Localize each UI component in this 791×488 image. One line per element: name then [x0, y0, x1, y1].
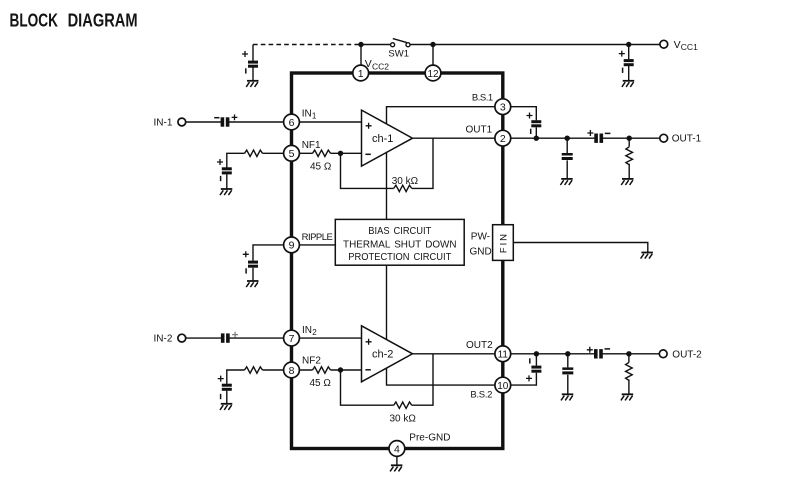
minus mark VCC1 cap — [622, 68, 624, 73]
resistor 45 ohm ch-1 — [313, 150, 331, 156]
node junction dot at pin12 feed — [430, 42, 435, 47]
wire B.S.2 from ch-2 bottom edge to pin 10 — [387, 368, 495, 385]
wire pin 4 to ground — [396, 456, 398, 465]
minus mark ch-1 input — [365, 153, 370, 155]
capacitor ripple plates — [248, 261, 258, 268]
svg-text:6: 6 — [289, 117, 295, 129]
capacitor VCC1 rail wire — [628, 45, 630, 81]
capacitor series OUT1 electrolytic — [594, 133, 603, 143]
wire bias stub ch-1 to bias box — [386, 152, 388, 220]
svg-text:IN: IN — [302, 325, 312, 336]
plus mark bootstrap cap 1 — [527, 113, 533, 119]
terminal OUT-2 — [659, 350, 667, 358]
pin 9 RIPPLE — [284, 237, 300, 253]
svg-text:2: 2 — [500, 133, 506, 145]
capacitor C-in1 (series electrolytic) — [221, 117, 230, 127]
wire feedback loop ch-1 — [341, 138, 434, 188]
minus mark series cap1 — [605, 132, 611, 134]
capacitor bootstrap B.S.1 wire — [511, 107, 537, 139]
node junction dot shunt cap2 — [565, 351, 570, 356]
svg-text:ch-1: ch-1 — [372, 133, 393, 145]
wire pin 6 to op-amp ch-1 + input — [299, 121, 361, 123]
plus mark C-in1 — [232, 115, 238, 121]
pin 5 NF1 — [284, 145, 300, 161]
pin 2 OUT1 — [495, 130, 511, 146]
node junction dot bootstrap1 on OUT1 — [534, 136, 539, 141]
capacitor shunt OUT2 plates — [562, 367, 573, 374]
resistor load OUT1 zigzag — [626, 147, 633, 165]
minus mark bootstrap cap 2 — [529, 358, 531, 363]
svg-text:9: 9 — [289, 240, 295, 252]
pin 12 — [425, 65, 441, 81]
svg-text:BIAS CIRCUIT: BIAS CIRCUIT — [368, 226, 431, 237]
svg-text:THERMAL SHUT DOWN: THERMAL SHUT DOWN — [343, 239, 457, 250]
op-amp ch-2 triangle — [362, 326, 413, 382]
svg-text:IN-1: IN-1 — [154, 118, 173, 129]
ground ripple cap — [246, 281, 258, 287]
minus mark series cap2 — [605, 348, 611, 350]
minus mark ch-2 input — [365, 369, 370, 371]
ground NF2 cap — [220, 404, 232, 410]
svg-text:30 kΩ: 30 kΩ — [390, 414, 417, 425]
plus mark bootstrap cap 2 — [526, 375, 532, 381]
svg-text:45 Ω: 45 Ω — [310, 378, 332, 389]
wire ch-2 output to pin 11 — [413, 353, 495, 355]
svg-text:SW1: SW1 — [388, 49, 409, 60]
capacitor shunt OUT2 wire — [567, 354, 569, 395]
ground VCC1 cap — [622, 81, 634, 87]
pin 11 OUT2 — [495, 346, 511, 362]
wire pin 7 to op-amp ch-2 + input — [299, 337, 361, 339]
svg-text:NF1: NF1 — [302, 140, 321, 151]
svg-text:IN: IN — [302, 108, 312, 119]
capacitor VCC2 rail (left dashed branch) wire — [252, 45, 254, 81]
wire pin 5 to op-amp ch-1 - input — [299, 152, 361, 154]
svg-text:IN-2: IN-2 — [154, 334, 173, 345]
capacitor VCC1 rail plates — [624, 59, 634, 66]
ground shunt cap1 — [560, 179, 572, 185]
capacitor bootstrap B.S.1 plates — [531, 120, 541, 127]
svg-text:ch-2: ch-2 — [372, 349, 393, 361]
resistor 30 kohm ch-1 — [394, 185, 412, 191]
svg-text:5: 5 — [289, 148, 295, 160]
svg-text:Pre-GND: Pre-GND — [409, 432, 450, 443]
svg-text:RIPPLE: RIPPLE — [302, 232, 333, 243]
ground FIN — [641, 253, 653, 259]
pin 10 B.S.2 — [495, 377, 511, 393]
node junction dot load resistor1 — [627, 136, 632, 141]
svg-text:12: 12 — [427, 69, 439, 80]
capacitor NF2 plates — [222, 384, 232, 391]
svg-text:1: 1 — [312, 112, 317, 121]
node junction dot shunt cap1 — [565, 136, 570, 141]
bias circuit box — [335, 219, 464, 265]
plus mark NF1 cap — [217, 159, 223, 165]
minus mark C-in1 — [214, 117, 219, 119]
svg-text:45 Ω: 45 Ω — [310, 161, 332, 172]
svg-text:10: 10 — [497, 381, 509, 392]
minus mark ripple cap — [245, 268, 247, 273]
svg-text:BLOCK: BLOCK — [10, 11, 58, 31]
plus mark series cap2 — [587, 347, 593, 353]
svg-text:FIN: FIN — [498, 232, 509, 253]
wire pin 9 to bias box — [299, 244, 335, 246]
svg-text:30 kΩ: 30 kΩ — [392, 176, 419, 187]
wire NF1 branch left of pin 5 — [227, 153, 284, 189]
minus mark bootstrap cap 1 — [530, 129, 532, 134]
switch SW1 right contact — [406, 43, 410, 47]
capacitor series OUT2 electrolytic — [594, 349, 603, 359]
ground shunt cap2 — [561, 394, 573, 400]
svg-text:DIAGRAM: DIAGRAM — [68, 11, 138, 31]
pin 1 VCC2 — [353, 65, 369, 81]
capacitor NF1 plates — [222, 167, 232, 174]
capacitor shunt OUT1 plates — [562, 153, 573, 160]
resistor load OUT1 wire — [628, 138, 630, 179]
node junction dot load resistor2 — [626, 351, 631, 356]
capacitor bootstrap B.S.2 plates — [531, 366, 541, 373]
wire IN-2 to pin 7 — [186, 337, 284, 339]
wire ripple branch to cap and ground — [253, 245, 284, 281]
wire IN-1 to pin 6 — [186, 121, 284, 123]
pin 7 IN2 — [284, 330, 300, 346]
svg-text:V: V — [365, 58, 372, 70]
svg-text:4: 4 — [394, 443, 400, 455]
ground NF1 cap — [220, 189, 232, 195]
node NF2 junction dot — [338, 367, 343, 372]
resistor NF2 decoupling — [245, 367, 263, 373]
wire pin 2 to OUT-1 terminal — [511, 137, 660, 139]
wire junction to SW1 left contact — [361, 44, 391, 46]
capacitor C-in2 (series electrolytic) — [221, 333, 230, 343]
switch SW1 lever — [393, 39, 407, 43]
switch SW1 left contact — [391, 43, 395, 47]
resistor load OUT2 wire — [628, 354, 630, 395]
minus mark VCC2 cap — [245, 68, 247, 73]
plus mark NF2 cap — [218, 376, 224, 382]
op-amp ch-1 triangle — [362, 110, 413, 166]
terminal VCC1 — [660, 40, 668, 48]
svg-text:OUT2: OUT2 — [466, 340, 493, 351]
plus mark ch-2 input — [366, 339, 372, 345]
capacitor bootstrap B.S.2 wire — [511, 354, 537, 385]
resistor NF1 decoupling — [245, 150, 263, 156]
wire feedback loop ch-2 — [341, 354, 434, 405]
plus mark ripple cap — [243, 251, 249, 257]
capacitor shunt OUT1 wire — [566, 138, 568, 179]
terminal IN-2 — [178, 334, 186, 342]
wire dashed VCC2 feed — [253, 44, 361, 46]
wire FIN to ground — [513, 243, 648, 253]
wire B.S.1 from ch-1 top edge to pin 3 — [387, 107, 495, 124]
ground load resistor2 — [621, 394, 633, 400]
svg-text:PW-: PW- — [471, 231, 490, 242]
node junction dot VCC1 cap tap — [626, 42, 631, 47]
svg-text:OUT-1: OUT-1 — [672, 134, 702, 145]
minus mark NF1 cap — [220, 176, 222, 181]
pin 4 Pre-GND — [389, 441, 405, 457]
svg-text:B.S.1: B.S.1 — [472, 92, 493, 103]
resistor 30 kohm ch-2 — [394, 402, 412, 408]
node junction dot at pin1 feed — [358, 42, 363, 47]
capacitor VCC2 rail plates — [248, 61, 258, 68]
wire NF2 branch left of pin 8 — [227, 370, 284, 404]
terminal OUT-1 — [660, 134, 668, 142]
wire pin 11 to OUT-2 terminal — [511, 353, 660, 355]
pin 3 B.S.1 — [495, 99, 511, 115]
wire junction to pin 1 — [360, 45, 362, 67]
svg-text:NF2: NF2 — [302, 356, 321, 367]
wire SW1 to VCC1 terminal — [410, 44, 660, 46]
plus mark ch-1 input — [366, 123, 372, 129]
resistor load OUT2 zigzag — [626, 362, 633, 380]
svg-text:CC1: CC1 — [681, 42, 698, 52]
svg-text:7: 7 — [289, 333, 295, 345]
plus mark series cap1 — [587, 130, 593, 136]
ground Pre-GND — [390, 465, 402, 471]
node NF1 junction dot — [338, 151, 343, 156]
terminal IN-1 — [178, 118, 186, 126]
wire pin 8 to op-amp ch-2 - input — [299, 369, 361, 371]
IC body outline — [292, 73, 503, 449]
pin 6 IN1 — [284, 114, 300, 130]
wire junction above pin 12 — [432, 45, 434, 67]
svg-text:11: 11 — [498, 350, 509, 361]
wire bias box to ch-2 — [386, 265, 388, 340]
plus mark VCC1 cap — [619, 51, 625, 57]
svg-text:CC2: CC2 — [372, 61, 389, 71]
svg-text:PROTECTION CIRCUIT: PROTECTION CIRCUIT — [348, 252, 451, 263]
svg-text:3: 3 — [500, 102, 506, 114]
plus mark C-in2 — [232, 332, 238, 338]
ground load resistor1 — [621, 179, 633, 185]
svg-text:OUT-2: OUT-2 — [672, 349, 702, 360]
svg-text:B.S.2: B.S.2 — [470, 390, 492, 401]
svg-text:V: V — [674, 39, 681, 51]
FIN box (PW-GND tab) — [493, 225, 514, 261]
node junction dot bootstrap2 on OUT2 — [534, 351, 539, 356]
svg-text:8: 8 — [289, 365, 295, 377]
minus mark NF2 cap — [220, 394, 222, 399]
svg-text:1: 1 — [358, 68, 364, 80]
svg-text:2: 2 — [312, 328, 317, 337]
resistor 45 ohm ch-2 — [313, 367, 331, 373]
svg-text:OUT1: OUT1 — [466, 124, 493, 135]
pin 8 NF2 — [284, 362, 300, 378]
ground VCC2 cap — [246, 81, 258, 87]
svg-text:GND: GND — [470, 246, 492, 257]
wire ch-1 output to pin 2 — [413, 137, 495, 139]
plus mark VCC2 cap — [242, 51, 248, 57]
